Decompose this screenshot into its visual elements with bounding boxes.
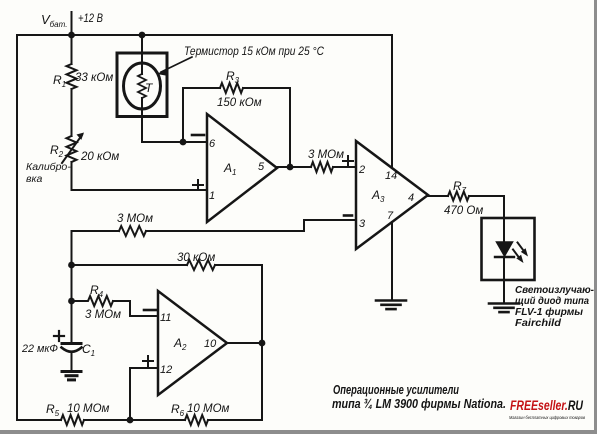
svg-text:30 кОм: 30 кОм bbox=[177, 252, 215, 264]
capacitor C1 bbox=[62, 343, 82, 370]
pin 11 bbox=[160, 312, 171, 324]
junction at 30k bbox=[68, 262, 75, 269]
wire rail to R1 bbox=[71, 35, 73, 64]
svg-text:Vбат.: Vбат. bbox=[41, 12, 67, 29]
svg-text:3 МОм: 3 МОм bbox=[308, 149, 344, 161]
pin 2 bbox=[358, 164, 365, 176]
value 22 uF bbox=[21, 343, 58, 355]
pin 4 bbox=[408, 192, 414, 204]
label LED annotation bbox=[515, 285, 595, 329]
wire feedback top left bbox=[183, 87, 220, 89]
resistor R3 bbox=[220, 83, 243, 93]
svg-text:3 МОм: 3 МОм bbox=[85, 309, 121, 321]
node +12V label bbox=[78, 13, 103, 25]
node Vbat label bbox=[41, 12, 67, 29]
label thermistor annotation bbox=[184, 46, 325, 58]
svg-text:Светоизлучаю-: Светоизлучаю- bbox=[515, 285, 595, 296]
wire rail to thermistor bbox=[141, 35, 143, 74]
wire A1 output bbox=[277, 166, 311, 168]
ground below C1 bbox=[62, 372, 81, 380]
op-amp A2 bbox=[158, 291, 227, 395]
svg-text:T: T bbox=[145, 81, 154, 95]
LED box bbox=[482, 218, 535, 280]
wire R4 to A2 pin11 bbox=[113, 301, 158, 316]
LED diode VD bbox=[495, 242, 514, 257]
junction at thermistor branch bbox=[139, 32, 146, 39]
label R3 bbox=[226, 69, 240, 85]
label A2 bbox=[173, 336, 187, 352]
value 3 MOhm bbox=[308, 149, 344, 161]
svg-text:R7: R7 bbox=[453, 179, 467, 195]
svg-text:R2: R2 bbox=[50, 143, 64, 159]
plus sign A1 bbox=[193, 180, 203, 190]
svg-text:Fairchild: Fairchild bbox=[515, 318, 562, 329]
wire pin3 net horizontal bbox=[72, 230, 120, 232]
pin 12 bbox=[160, 364, 172, 376]
label R6 bbox=[171, 402, 185, 418]
wire bottom rail mid bbox=[84, 419, 185, 421]
wire R2 to A1 pin1 bbox=[72, 162, 208, 190]
plus sign A2 bbox=[143, 356, 153, 366]
pin 10 bbox=[204, 338, 217, 350]
op-amp A3 bbox=[356, 141, 428, 249]
label A1 bbox=[223, 161, 236, 177]
svg-text:+12 В: +12 В bbox=[78, 13, 103, 25]
svg-text:вка: вка bbox=[26, 173, 42, 185]
svg-text:1: 1 bbox=[209, 190, 215, 202]
resistor 3 MOhm (A1 to A3) bbox=[311, 162, 333, 172]
value 3 MOhm bbox=[117, 213, 153, 225]
wire into LED anode bbox=[503, 218, 505, 242]
wire R1 to R2 bbox=[71, 89, 73, 136]
value 150 kOhm bbox=[217, 97, 262, 109]
pin 3 bbox=[359, 218, 366, 230]
svg-text:A3: A3 bbox=[371, 188, 385, 204]
resistor R5 bbox=[61, 415, 84, 425]
resistor R4 bbox=[72, 296, 114, 306]
wire to A3 pin2 bbox=[333, 166, 356, 168]
svg-text:10 МОм: 10 МОм bbox=[67, 403, 110, 415]
resistor 3 MOhm (integrator to A3 pin3) bbox=[119, 226, 146, 236]
label R4 bbox=[90, 283, 104, 299]
ground below LED bbox=[489, 304, 519, 313]
svg-text:R3: R3 bbox=[226, 69, 240, 85]
svg-text:10 МОм: 10 МОм bbox=[187, 403, 230, 415]
svg-text:4: 4 bbox=[408, 192, 414, 204]
plus sign A3 bbox=[343, 156, 353, 166]
value 10 MOhm R5 bbox=[67, 403, 110, 415]
junction at bottom rail bbox=[127, 417, 134, 424]
junction at R1 branch bbox=[68, 32, 75, 39]
wire 30k right to A2 output bbox=[215, 265, 262, 420]
svg-text:типа ¾ LM 3900 фирмы Nationa.: типа ¾ LM 3900 фирмы Nationa. bbox=[332, 397, 506, 411]
thermistor T bbox=[117, 53, 167, 117]
svg-text:Магазин бесплатных цифровых то: Магазин бесплатных цифровых товаров bbox=[509, 415, 586, 420]
label opamp annotation bbox=[332, 383, 506, 411]
junction at A1 output bbox=[287, 164, 294, 171]
wire pin3 net step bbox=[146, 220, 356, 231]
svg-text:FLV-1 фирмы: FLV-1 фирмы bbox=[515, 306, 583, 318]
svg-text:FREEseller.RU: FREEseller.RU bbox=[510, 398, 584, 413]
resistor R7 bbox=[448, 192, 469, 201]
resistor R2 (variable) bbox=[62, 133, 84, 164]
pin 14 bbox=[385, 170, 397, 182]
pin 7 bbox=[387, 210, 394, 222]
wire 30k left bbox=[72, 264, 188, 266]
wire feedback right bbox=[243, 88, 290, 167]
op-amp A1 bbox=[207, 114, 277, 222]
junction at R4 bbox=[68, 298, 75, 305]
resistor R6 bbox=[185, 415, 208, 425]
wire bottom rail left bbox=[17, 419, 61, 421]
pin 1 bbox=[209, 190, 215, 202]
svg-text:щий диод типа: щий диод типа bbox=[515, 296, 589, 307]
resistor R1 bbox=[67, 64, 77, 89]
svg-text:5: 5 bbox=[258, 161, 265, 173]
junction at A1 pin6 feedback bbox=[180, 139, 187, 146]
plus sign C1 bbox=[54, 331, 64, 341]
value 3 MOhm R4 bbox=[85, 309, 121, 321]
svg-text:11: 11 bbox=[160, 312, 171, 324]
value 20 kOhm bbox=[80, 151, 119, 163]
svg-text:6: 6 bbox=[209, 138, 216, 150]
svg-text:Калибро-: Калибро- bbox=[26, 161, 71, 173]
wire A2 pin12 down bbox=[130, 368, 158, 420]
label C1 bbox=[82, 342, 95, 358]
junction at A2 output bbox=[259, 340, 266, 347]
wire pin 7 to ground bbox=[391, 222, 393, 299]
svg-text:7: 7 bbox=[387, 210, 394, 222]
svg-text:33 кОм: 33 кОм bbox=[75, 72, 113, 84]
wire A2 output bbox=[227, 342, 262, 344]
label R5 bbox=[46, 402, 60, 418]
svg-text:20 кОм: 20 кОм bbox=[80, 151, 119, 163]
arrow to thermistor bbox=[157, 57, 192, 76]
label T bbox=[145, 81, 154, 95]
watermark FREEseller.RU bbox=[509, 398, 586, 420]
wire +12V to pin 14 bbox=[391, 35, 393, 167]
svg-text:22 мкФ: 22 мкФ bbox=[21, 343, 58, 355]
svg-text:C1: C1 bbox=[82, 342, 95, 358]
wire thermistor to A1 pin6 bbox=[142, 98, 207, 142]
minus sign A2 bbox=[144, 309, 156, 312]
resistor 30 kOhm bbox=[187, 260, 215, 270]
label R2 bbox=[50, 143, 64, 159]
svg-text:A2: A2 bbox=[173, 336, 187, 352]
svg-text:3 МОм: 3 МОм bbox=[117, 213, 153, 225]
svg-text:12: 12 bbox=[160, 364, 172, 376]
svg-text:3: 3 bbox=[359, 218, 366, 230]
svg-text:Термистор 15 кОм при 25 °С: Термистор 15 кОм при 25 °С bbox=[184, 46, 325, 58]
wire Vbat stub bbox=[71, 12, 73, 35]
value 470 Ohm bbox=[444, 205, 483, 217]
svg-text:A1: A1 bbox=[223, 161, 236, 177]
svg-text:R5: R5 bbox=[46, 402, 60, 418]
svg-text:Операционные усилители: Операционные усилители bbox=[333, 383, 459, 397]
svg-text:150 кОм: 150 кОм bbox=[217, 97, 262, 109]
value 33 kOhm bbox=[75, 72, 113, 84]
wire +12V top rail bbox=[17, 34, 392, 36]
pin 5 bbox=[258, 161, 265, 173]
LED light arrows bbox=[513, 243, 528, 264]
svg-text:470 Ом: 470 Ом bbox=[444, 205, 483, 217]
svg-text:10: 10 bbox=[204, 338, 217, 350]
wire left rail bbox=[16, 35, 18, 420]
wire A3 output bbox=[428, 195, 448, 197]
minus sign A3 bbox=[344, 214, 352, 217]
ground below A3 bbox=[376, 301, 406, 310]
label Kalibrovka bbox=[26, 161, 71, 185]
wire R7 to LED bbox=[469, 196, 504, 218]
label R1 bbox=[53, 73, 66, 89]
label R7 bbox=[453, 179, 467, 195]
svg-text:R6: R6 bbox=[171, 402, 185, 418]
svg-text:2: 2 bbox=[358, 164, 365, 176]
pin 6 bbox=[209, 138, 216, 150]
wire LED cathode to ground bbox=[503, 257, 505, 302]
minus sign A1 bbox=[192, 134, 204, 137]
svg-text:R4: R4 bbox=[90, 283, 104, 299]
wire bottom rail right bbox=[208, 419, 262, 421]
wire feedback left vertical bbox=[182, 88, 184, 142]
svg-text:14: 14 bbox=[385, 170, 397, 182]
wire node vertical bbox=[71, 231, 73, 343]
value 30 kOhm bbox=[177, 252, 215, 264]
svg-text:R1: R1 bbox=[53, 73, 66, 89]
label A3 bbox=[371, 188, 385, 204]
value 10 MOhm R6 bbox=[187, 403, 230, 415]
